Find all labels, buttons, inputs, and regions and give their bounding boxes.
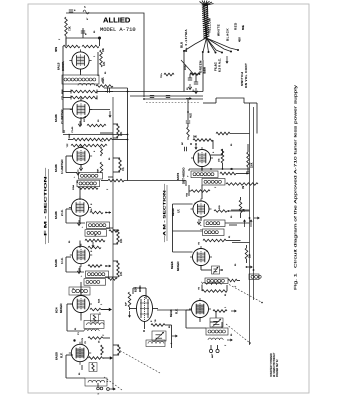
dashed gang link left [104, 377, 122, 390]
wire green [202, 38, 207, 53]
resistor det load [187, 185, 211, 197]
resistor 72K [65, 17, 72, 36]
bus right outer [249, 103, 251, 345]
coil L8 FM osc [146, 340, 165, 347]
tube V4 6AU6 second IF [69, 196, 91, 219]
svg-text:10A: 10A [249, 253, 252, 258]
resistor boxed [91, 314, 99, 322]
resistor 150K plate [211, 149, 224, 169]
coil L3 FM det [69, 287, 90, 295]
svg-text:B+ 0-137MA: B+ 0-137MA [184, 29, 188, 52]
resistor osc feed [126, 292, 131, 310]
node osc [143, 330, 145, 332]
capacitor C1 on rail [69, 9, 76, 12]
resistor Y22 [67, 143, 107, 148]
wire V5 drops [66, 241, 84, 273]
svg-text:B2F: B2F [126, 301, 128, 306]
credit note [270, 352, 279, 377]
svg-text:—F M - SECTION—: —F M - SECTION— [44, 166, 48, 244]
capacitor on bus [97, 88, 113, 92]
wire fil drop [202, 52, 204, 92]
transformer T6 IF sec [203, 229, 225, 236]
svg-text:6AT6: 6AT6 [176, 173, 180, 180]
ground osc [128, 311, 131, 318]
resistor 72L [113, 158, 125, 172]
svg-text:VOR: VOR [103, 79, 105, 84]
svg-text:1 I.F.: 1 I.F. [60, 257, 64, 264]
resistor R2 row [56, 45, 105, 52]
svg-text:YELLOW: YELLOW [208, 18, 212, 33]
B+ bus left [112, 97, 114, 390]
coil L1 on rail [83, 6, 89, 14]
resistor WC2 [84, 116, 106, 126]
resistor grid 1IF [88, 246, 101, 249]
wire V6 drops [67, 282, 84, 331]
electrolytic arrows [243, 217, 253, 227]
component value annotations [59, 17, 237, 382]
tube V8 6AT6 det audio [191, 147, 213, 170]
resistor pair row NBV [62, 89, 97, 94]
capacitor cluster [187, 73, 200, 92]
caption Fig.1 [293, 85, 298, 290]
svg-text:752+: 752+ [161, 72, 163, 78]
transformer T2 interstage [73, 173, 103, 187]
wire 6BA6RF grid [186, 310, 206, 328]
antenna input AM [209, 345, 219, 358]
transformer T6 IF pri [200, 220, 250, 227]
resistor YO2 [72, 184, 98, 190]
label 6AU6 2 IF [54, 209, 64, 219]
cable bundle [200, 1, 214, 39]
svg-text:BC: BC [182, 142, 184, 145]
svg-text:FOLDER SET 42: FOLDER SET 42 [277, 359, 279, 377]
svg-text:MIXER: MIXER [176, 261, 180, 271]
svg-text:WBA: WBA [72, 184, 75, 190]
resistor det 270K [220, 172, 250, 175]
svg-text:WHITE: WHITE [217, 24, 221, 36]
resistor 22K upper [113, 124, 123, 138]
wire bus stubs [100, 133, 113, 277]
svg-text:ALLIED: ALLIED [103, 16, 131, 25]
antenna terminals [97, 383, 116, 395]
label 6BE6 MIXER [170, 261, 180, 271]
label BLACK [226, 28, 230, 41]
wire grid rail [63, 128, 128, 134]
resistor VOL 1MEG [193, 136, 213, 150]
svg-text:2 I.F.: 2 I.F. [60, 209, 64, 216]
wire limiter left [62, 110, 64, 133]
tube V1 6AL5 discriminator [69, 49, 91, 75]
node AUD [187, 99, 192, 121]
coil L5 [78, 329, 99, 335]
capacitor C2 [81, 28, 87, 38]
transformer T5 primary [187, 171, 219, 178]
wire coupling horizontal [101, 179, 186, 186]
wire switch lead [206, 38, 239, 51]
svg-text:ON VOL CONT: ON VOL CONT [244, 63, 248, 88]
svg-text:1M: 1M [243, 186, 245, 189]
wire 6J6 links [133, 288, 190, 310]
label WHITE [217, 24, 221, 36]
plate arrow V2 [89, 110, 112, 118]
svg-text:1 LIMITER: 1 LIMITER [60, 159, 64, 174]
tube V10 6BE6 mixer [190, 246, 212, 269]
resistor WBF [68, 133, 128, 141]
trimmer RF [210, 318, 223, 327]
tube V2 6AU6 second limiter [70, 98, 92, 121]
label 6C4 MIXER [55, 303, 64, 313]
resistor osc grid [202, 285, 227, 292]
B+ taps mixer [246, 266, 255, 271]
svg-text:R.F.: R.F. [175, 309, 179, 315]
svg-text:I.F.: I.F. [177, 209, 181, 213]
wire V4 drops [66, 187, 85, 224]
ground V2 cathode [78, 121, 82, 127]
wire mixer tail [201, 266, 212, 270]
resistor 22K mid [113, 230, 123, 244]
svg-text:RED: RED [234, 22, 238, 30]
resistor plate 1IF [88, 265, 102, 268]
svg-text:WB: WB [219, 205, 221, 209]
coil L10 [208, 338, 233, 341]
svg-text:72K: 72K [68, 26, 72, 31]
discriminator transformer T1 [62, 75, 105, 84]
discharge arrow [92, 242, 95, 248]
resistor 220K [247, 144, 254, 172]
wire right stubs [229, 172, 250, 243]
wire top rail [66, 13, 144, 97]
label 6BA6 IF [171, 208, 181, 216]
tube V6 6C4 mixer [70, 293, 92, 316]
B+ arrow 6C4 [101, 308, 112, 312]
wire grid feed arrow [186, 97, 192, 100]
resistor plate 6C4 [90, 298, 102, 315]
B+ arrow 1IF [105, 265, 111, 268]
resistor 752 [161, 65, 200, 78]
wire V7 drops [66, 341, 85, 378]
svg-text:6AU6: 6AU6 [54, 259, 58, 267]
svg-text:6.3 V A.C.: 6.3 V A.C. [218, 58, 222, 72]
resistor plate 2IF [90, 208, 103, 214]
tube V11 6J6 oscillator [130, 296, 159, 330]
trimmer mixer osc [212, 266, 223, 274]
svg-text:6AU6: 6AU6 [54, 211, 58, 219]
resistor plate 6BA6RF [213, 310, 237, 313]
wire trimmer link [200, 311, 222, 328]
label 6AU6 1 LIMITER [54, 159, 64, 174]
svg-text:80E: 80E [241, 25, 245, 30]
resistor 6BR [98, 147, 103, 173]
coil L7 osc [199, 282, 222, 290]
resistor plate 6AG5 [89, 357, 103, 360]
resistor bus lower [113, 345, 120, 355]
coil right edge [249, 274, 261, 280]
B+ arrow 2IF [105, 211, 111, 214]
wire grid spine upper [63, 38, 71, 98]
resistor plate 6BA6IF [214, 205, 250, 212]
B+ arrow 6AG5 [103, 356, 113, 360]
node rail dots [127, 134, 129, 141]
label YELLOW [208, 18, 212, 33]
ground V3 cathode [76, 170, 80, 176]
resistor 16A [245, 245, 251, 263]
dashed gang link rf [226, 324, 251, 344]
label AM-SECTION [163, 183, 168, 242]
wire stage1 left [62, 46, 64, 84]
label 6AL5 DISCR [57, 61, 65, 71]
wire red [206, 38, 232, 53]
wire right tube drops [200, 217, 217, 322]
svg-text:47K: 47K [103, 61, 106, 66]
svg-text:W2B: W2B [185, 65, 187, 70]
svg-text:MIXER: MIXER [59, 303, 63, 313]
svg-text:6BA6: 6BA6 [171, 208, 175, 216]
label 6AU6 2 LIMITER [54, 109, 64, 124]
label FM-SECTION [44, 166, 49, 244]
label SWITCH ON VOL CONT [240, 63, 248, 88]
wire BLU [183, 38, 206, 92]
resistor YB osc [151, 319, 172, 348]
label 6BA6 RF [169, 309, 179, 318]
svg-text:Fig. 1 Circuit diagram of th: Fig. 1 Circuit diagram of the Approved A… [293, 85, 298, 290]
transformer T3 IF [81, 222, 119, 236]
svg-text:COURTESY HOWARD: COURTESY HOWARD [270, 353, 273, 377]
resistor 1MEG long [226, 183, 258, 189]
tube V3 6AU6 first limiter [70, 145, 92, 168]
label RED 80V [234, 22, 246, 42]
svg-text:6C4: 6C4 [55, 307, 59, 313]
label 6J6 OSC [134, 285, 143, 292]
svg-text:6AG5: 6AG5 [55, 352, 59, 360]
tube V9 6BA6 IF [191, 199, 212, 221]
wire white fil [206, 38, 216, 54]
label 6AG5 RF [55, 352, 64, 360]
svg-text:MODEL A-710: MODEL A-710 [100, 27, 136, 33]
label 6AT6 DET AUDIO [176, 167, 186, 184]
svg-text:220K: 220K [252, 162, 254, 168]
wire AM rail corner [216, 98, 257, 134]
capacitor coupling 6AT6 [186, 121, 190, 140]
label FIL 6.3V [214, 58, 222, 72]
dashed shield top [146, 102, 200, 104]
svg-text:WBF: WBF [69, 133, 71, 139]
wire am section top [203, 98, 216, 103]
svg-text:ANT: ANT [211, 353, 214, 358]
transformer T5 secondary [202, 179, 225, 200]
wire 6BE6 grid feed [173, 251, 193, 253]
resistor AGC row [85, 239, 105, 242]
wire 6BA6IF grid [173, 204, 203, 252]
svg-text:BLACK: BLACK [226, 28, 230, 41]
svg-text:6J6: 6J6 [134, 287, 138, 292]
svg-text:6AU6: 6AU6 [54, 164, 58, 172]
svg-text:GREEN: GREEN [199, 60, 203, 73]
svg-text:AUD: AUD [190, 113, 193, 118]
wire audio out rail [189, 167, 250, 172]
coil L4 box [84, 321, 104, 329]
resistor 47K [100, 50, 106, 67]
resistor pair row YBT [62, 95, 97, 100]
ground V5 cathode [77, 268, 81, 274]
svg-text:NBM: NBM [56, 47, 58, 52]
tube V12 6BA6 RF [189, 298, 211, 321]
resistor 1M right [239, 197, 245, 218]
wire 6BA6 cathode [197, 219, 201, 225]
coil L9 box [206, 328, 228, 335]
svg-text:BLU: BLU [180, 42, 184, 48]
B+ node right [254, 217, 260, 220]
svg-text:—A M - SECTION—: —A M - SECTION— [163, 183, 167, 242]
svg-text:6AU6: 6AU6 [54, 114, 58, 122]
resistor screen 6AG5 [99, 340, 104, 355]
capacitor grid 6AT6 [182, 142, 197, 152]
dashed gang link right [229, 285, 263, 304]
svg-text:R.F.: R.F. [60, 353, 64, 359]
ground cluster [188, 84, 198, 94]
svg-text:DET-AUDIO: DET-AUDIO [182, 167, 186, 184]
wire heater diag [181, 60, 193, 74]
svg-text:27K: 27K [120, 271, 123, 276]
wire V3 drops [66, 146, 83, 173]
wire coupling vertical [104, 88, 128, 181]
svg-text:22K: 22K [120, 131, 123, 136]
trimmer FM osc [152, 331, 178, 341]
wire yellow [206, 38, 209, 53]
wire left stage spine [62, 84, 64, 110]
resistor 250K [216, 132, 250, 135]
wire stage1 right [97, 52, 99, 76]
node junction dot [98, 37, 101, 47]
coil L2 [78, 79, 113, 87]
svg-text:6BE6: 6BE6 [170, 261, 174, 269]
tube V7 6AG5 RF amp [69, 342, 91, 365]
resistor 27K lower [113, 261, 123, 277]
svg-text:B2A: B2A [98, 298, 101, 303]
fil arrow [226, 56, 229, 64]
ground V4 cathode [77, 220, 81, 226]
tube V5 6AU6 first IF [70, 244, 92, 267]
wire V2 plate drop [63, 98, 81, 127]
resistor YB 6BE6 [199, 239, 241, 245]
dashed gang link center [117, 349, 160, 373]
cable junction [205, 36, 207, 38]
wire from 72K to junction [66, 36, 98, 46]
label 6AU6 1 IF [54, 257, 64, 267]
title MODEL A-710 [100, 27, 136, 33]
resistor cathode boxed [89, 363, 97, 372]
svg-text:45V: 45V [238, 37, 242, 42]
coil L6 antenna box [85, 378, 107, 386]
svg-text:W. SAMS PHOTOFACT: W. SAMS PHOTOFACT [273, 352, 276, 377]
svg-text:22K: 22K [120, 238, 123, 243]
oscillator coil T7 [201, 278, 241, 284]
transformer T4 IF [80, 271, 117, 285]
title ALLIED [103, 16, 131, 25]
wire black [206, 38, 223, 54]
label GREEN [199, 60, 207, 73]
resistor YB row [73, 337, 110, 342]
bus right inner [253, 107, 255, 300]
svg-text:72L: 72L [122, 166, 125, 171]
wire top cross rail [105, 91, 203, 100]
label BLU B+ [180, 29, 189, 52]
